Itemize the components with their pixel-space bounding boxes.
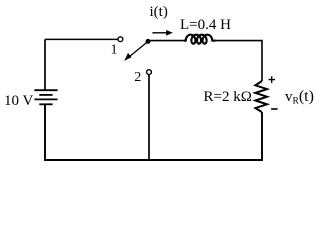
svg-text:vR(t): vR(t) bbox=[285, 88, 314, 106]
svg-text:i(t): i(t) bbox=[150, 4, 168, 20]
svg-text:R=2 kΩ: R=2 kΩ bbox=[204, 89, 252, 105]
svg-text:1: 1 bbox=[111, 43, 118, 58]
svg-text:10 V: 10 V bbox=[4, 93, 33, 109]
svg-text:L=0.4 H: L=0.4 H bbox=[180, 17, 231, 33]
svg-text:2: 2 bbox=[134, 70, 141, 85]
